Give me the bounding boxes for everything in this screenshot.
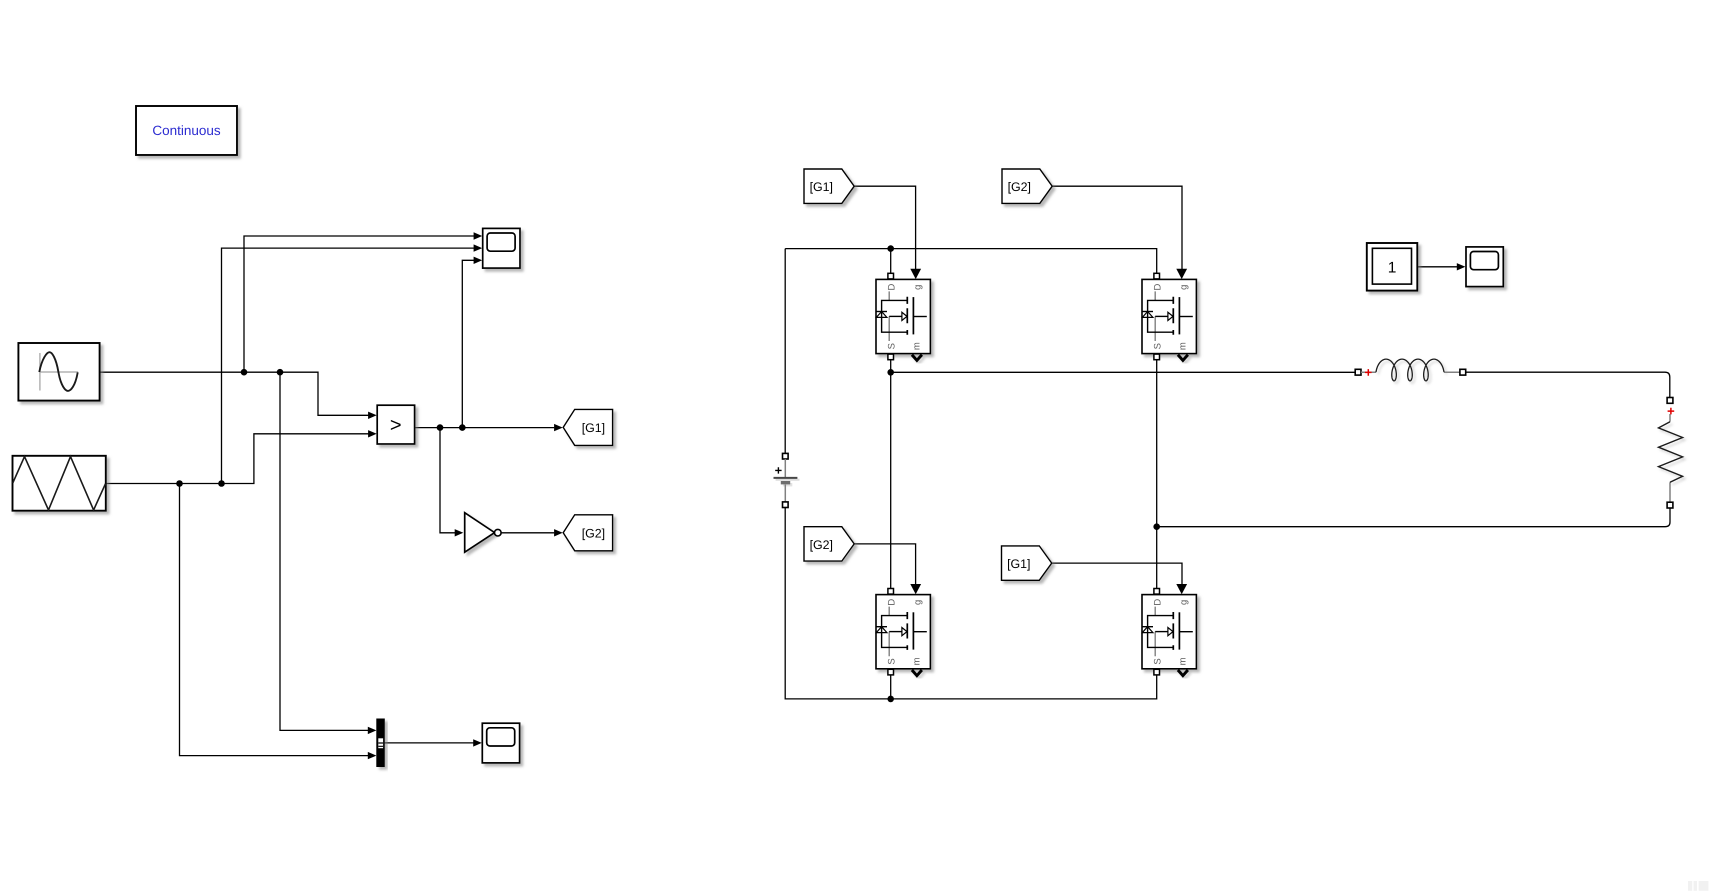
powergui block "Continuous" [136,106,237,155]
svg-text:Continuous: Continuous [152,123,221,138]
resistor R (load) [1659,398,1683,509]
mux block [377,719,384,766]
inductor L (series) [1355,359,1466,381]
wire: right leg (MOSFET2 source to MOSFET4 drain) [1156,360,1158,591]
wire: triangle tap up to Scope input 2 [222,244,483,483]
wire: tap down to NOT gate input [440,428,463,537]
scope Scope3 [1466,247,1503,287]
svg-text:[G1]: [G1] [1007,557,1030,571]
junction node on relational output (NOT tap) [437,424,444,431]
wire: Mux output to Scope2 [384,739,482,746]
wire: tap up to Scope input 3 [462,257,482,428]
junction node on bottom rail [887,696,894,703]
svg-text:[G2]: [G2] [1008,180,1031,194]
svg-text:[G2]: [G2] [810,538,833,552]
wire: battery positive lead [784,249,786,454]
wire: left leg midpoint (MOSFET1 source to MOSFET3 drain) [890,360,892,591]
wire: sine tap up to Scope input 1 [244,232,482,372]
wire: constant to Scope3 [1417,263,1465,270]
junction node at right leg midpoint [1153,523,1160,530]
junction node on triangle line (scope tap) [218,480,225,487]
goto tag [G1] [563,409,612,445]
wire: NOT gate output to Goto [G2] [502,529,563,536]
wire: sine tap down to Mux input 1 [280,372,376,734]
relational operator block > [377,405,414,444]
wire: top DC rail (battery + to MOSFET1/MOSFET2 drains) [785,249,1156,274]
DC voltage source (battery) [774,453,800,507]
junction node on triangle line (mux tap) [176,480,183,487]
scope Scope2 [482,723,519,763]
from tag [G2] (upper) [1002,169,1052,203]
junction node on sine line (scope tap) [241,369,248,376]
MOSFET Q2 (upper right switch) [1142,269,1196,361]
wire: load top rail to inductor [891,371,1356,373]
wire: sine output to relational operator input 1 [100,372,377,419]
junction node at left leg midpoint [887,369,894,376]
wire: From [G2] lower to MOSFET3 gate [854,544,916,584]
svg-text:1: 1 [1388,260,1397,277]
NOT logical operator gate [465,513,501,553]
wire: inductor to resistor (load top right) [1466,372,1670,397]
junction node on top rail [887,245,894,252]
sine wave source block [18,343,99,401]
wire: relational operator output to Goto [G1] [415,424,563,431]
faint watermark bottom-right [1688,881,1708,891]
from tag [G2] (lower) [804,527,854,561]
from tag [G1] (lower) [1002,546,1052,580]
junction node on relational output (scope tap) [459,424,466,431]
scope Scope1 (3 inputs) [483,228,520,268]
svg-text:[G1]: [G1] [810,180,833,194]
wire: triangle output to relational operator input 2 [106,430,377,483]
wire: From [G2] to MOSFET2 gate [1051,186,1182,269]
svg-text:[G1]: [G1] [582,421,605,435]
triangle (repeating sequence) carrier source block [13,456,106,511]
wire: From [G1] to MOSFET1 gate [854,186,916,269]
svg-text:>: > [390,415,402,437]
goto tag [G2] [563,515,612,551]
svg-text:[G2]: [G2] [582,526,605,540]
wire: From [G1] lower to MOSFET4 gate [1052,563,1183,584]
MOSFET Q3 (lower left switch) [876,584,930,676]
wire: bottom DC rail (battery - to MOSFET3/MOSFET4 sources) [785,507,1156,699]
MOSFET Q1 (upper left switch) [876,269,930,361]
constant block "1" [1367,243,1418,291]
MOSFET Q4 (lower right switch) [1142,584,1196,676]
wire: triangle tap down to Mux input 2 [180,484,377,760]
junction node on sine line (mux tap) [277,369,284,376]
wire: load return rail (resistor bottom to right leg midpoint) [1157,508,1670,527]
from tag [G1] (upper) [804,169,854,203]
